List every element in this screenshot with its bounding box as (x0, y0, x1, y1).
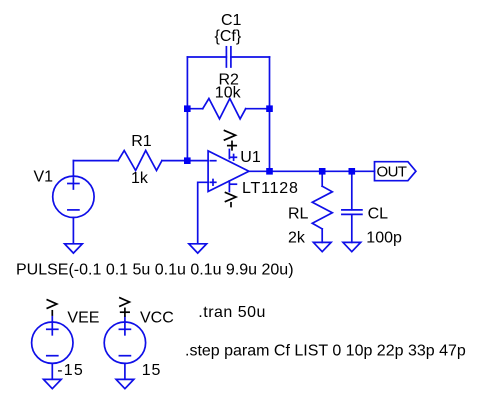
node junction R2 left (184, 105, 191, 112)
svg-text:VCC: VCC (140, 310, 174, 327)
node junction CL (349, 168, 356, 175)
svg-text:.step param Cf LIST 0 10p 22p: .step param Cf LIST 0 10p 22p 33p 47p (185, 343, 466, 360)
wire VCC bottom stub (124, 363, 126, 379)
wire VCC top stub (124, 317, 126, 323)
resistor R1 (118, 151, 162, 171)
ground under V1 (65, 244, 83, 253)
svg-text:LT1128: LT1128 (242, 180, 299, 197)
wire VEE bottom stub (51, 363, 53, 379)
voltage source V1 (53, 176, 94, 217)
svg-text:{Cf}: {Cf} (215, 28, 242, 45)
wire left vertical feedback (186, 57, 188, 161)
node junction RL (319, 168, 326, 175)
svg-text:1k: 1k (131, 170, 149, 187)
svg-text:-15: -15 (57, 362, 84, 379)
svg-text:U1: U1 (240, 149, 261, 166)
op-amp V+ power pin (228, 150, 230, 159)
wire RL bottom lead (321, 229, 323, 243)
wire op-amp non-inverting input to ground (198, 182, 208, 243)
svg-text:V1: V1 (34, 169, 54, 186)
voltage source VEE (32, 322, 73, 363)
wire CL bottom lead (351, 215, 353, 243)
wire RL top lead (321, 171, 323, 186)
wire op-amp output (249, 170, 375, 172)
svg-text:VEE: VEE (67, 310, 99, 327)
svg-text:.tran 50u: .tran 50u (198, 304, 266, 321)
ground under op-amp non-inverting input (189, 244, 207, 253)
resistor R2 (203, 99, 246, 119)
wire R2 left lead (189, 108, 203, 110)
wire R2 right lead (246, 108, 269, 110)
wire top left to C1 (187, 56, 226, 58)
wire R1 to op-amp inverting input (162, 160, 208, 162)
voltage source VCC (104, 322, 145, 363)
resistor RL (312, 186, 332, 229)
svg-text:C1: C1 (221, 12, 242, 29)
svg-text:10k: 10k (215, 85, 242, 102)
svg-text:CL: CL (368, 206, 389, 223)
op-amp V- power pin (228, 181, 230, 192)
ground under CL (343, 242, 361, 251)
op-amp U1 triangle (208, 151, 249, 192)
wire VEE top stub (51, 317, 53, 323)
net flag V- above VEE (47, 300, 57, 308)
svg-text:100p: 100p (366, 230, 402, 247)
ground under RL (313, 242, 331, 251)
node junction output/feedback (266, 168, 273, 175)
wire V1 to R1 (73, 160, 118, 162)
node junction R1/op-amp input (184, 157, 191, 164)
svg-text:OUT: OUT (377, 164, 407, 181)
ground under VCC (116, 379, 134, 388)
ground under VEE (44, 379, 62, 388)
svg-text:RL: RL (288, 206, 309, 223)
node junction R2 right (266, 105, 273, 112)
capacitor C1 (225, 47, 227, 67)
op-amp non-inverting input mark (210, 181, 216, 183)
wire right vertical feedback (269, 57, 271, 171)
svg-text:R1: R1 (131, 133, 152, 150)
capacitor CL (342, 209, 362, 211)
output flag OUT (375, 162, 416, 181)
svg-text:15: 15 (142, 362, 161, 379)
wire C1 to right vertical (231, 56, 270, 58)
wire CL top lead (351, 171, 353, 209)
net flag V+ above op-amp (225, 131, 236, 141)
op-amp inverting input mark (210, 160, 216, 162)
svg-text:2k: 2k (288, 230, 306, 247)
wire V1 bottom stub (72, 218, 74, 244)
wire V1 top stub (72, 161, 74, 177)
net flag V+ above VCC (120, 298, 129, 306)
svg-text:PULSE(-0.1 0.1 5u 0.1u 0.1u 9.: PULSE(-0.1 0.1 5u 0.1u 0.1u 9.9u 20u) (16, 262, 294, 279)
net flag V- below op-amp (226, 193, 237, 202)
